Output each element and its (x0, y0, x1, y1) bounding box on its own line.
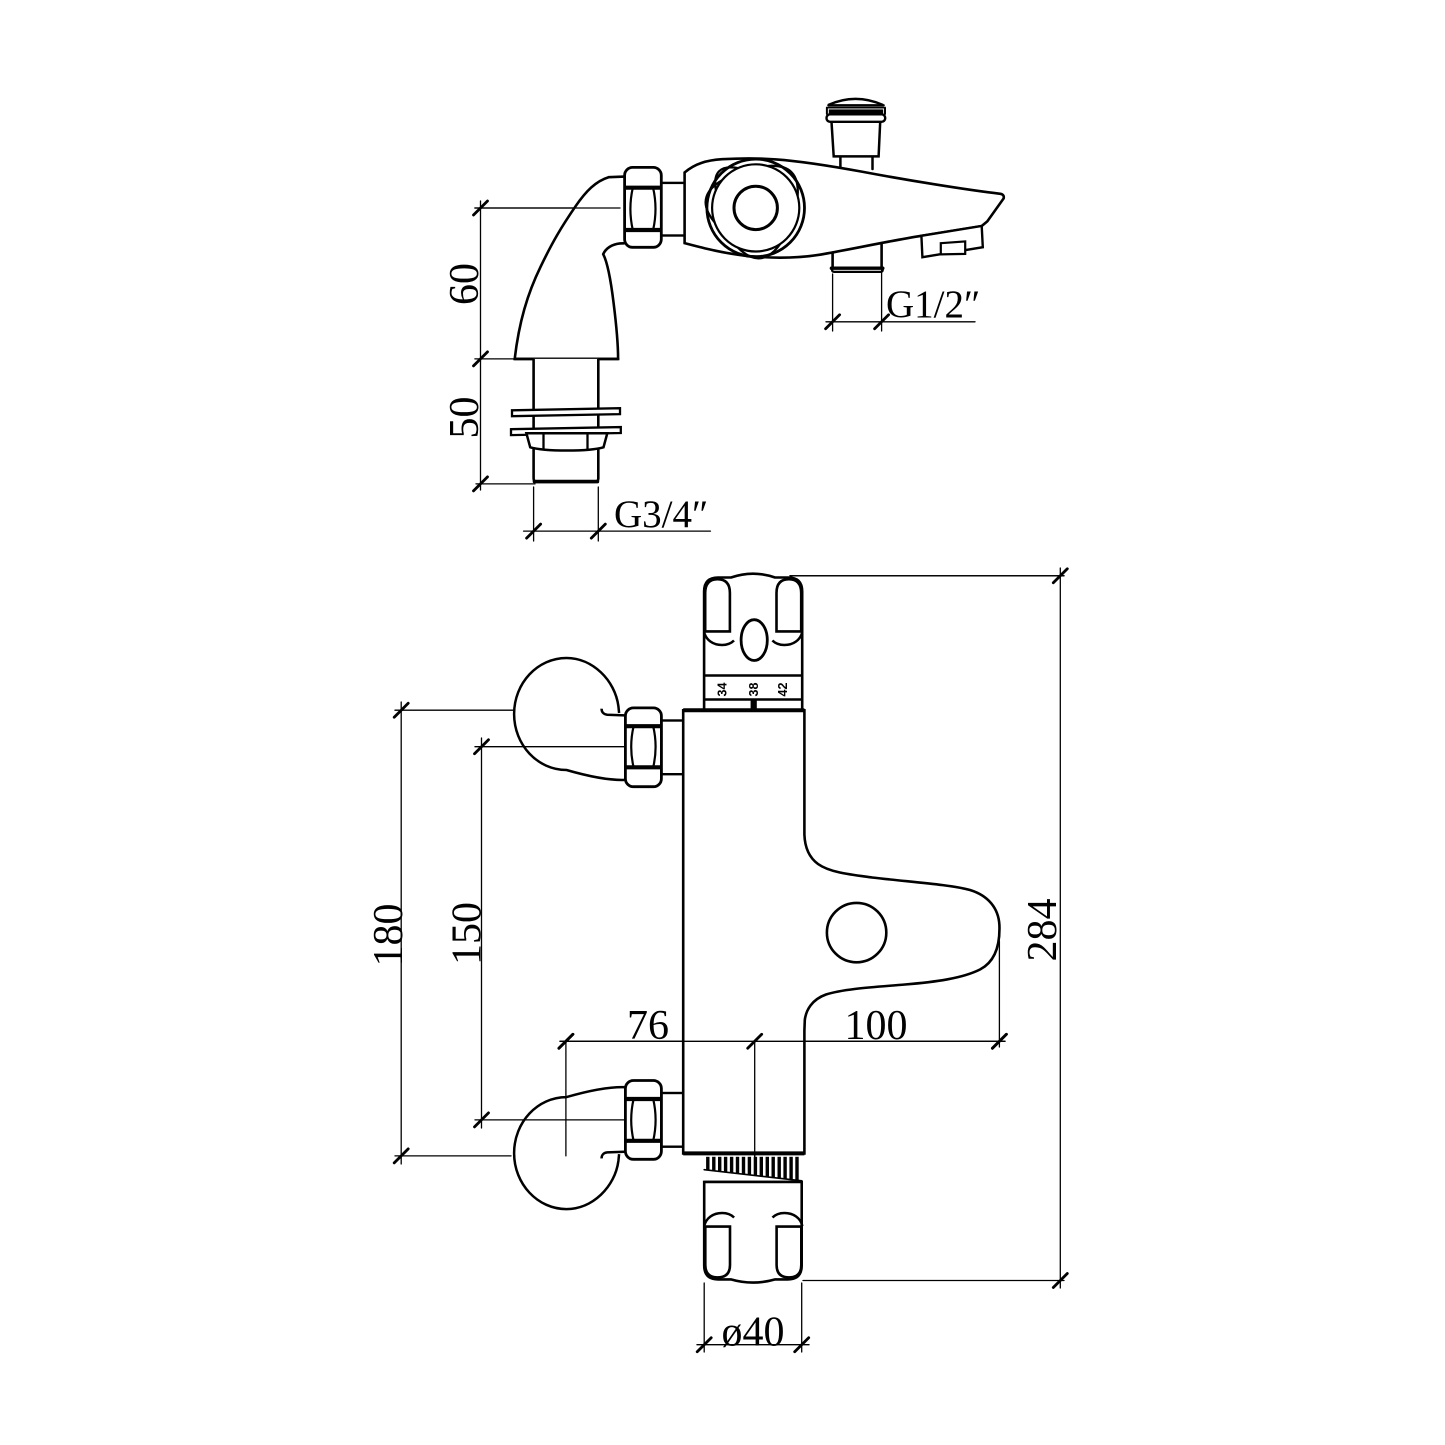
svg-text:G3/4″: G3/4″ (614, 493, 708, 536)
svg-text:42: 42 (776, 683, 790, 697)
svg-text:180: 180 (366, 904, 412, 967)
svg-text:G1/2″: G1/2″ (886, 283, 980, 326)
svg-text:60: 60 (442, 263, 488, 305)
svg-text:ø40: ø40 (722, 1310, 785, 1356)
svg-text:34: 34 (715, 683, 729, 697)
svg-text:76: 76 (627, 1003, 669, 1049)
svg-text:50: 50 (442, 397, 488, 439)
svg-text:284: 284 (1020, 899, 1066, 962)
svg-text:38: 38 (747, 683, 761, 697)
svg-text:150: 150 (445, 902, 491, 965)
svg-text:100: 100 (845, 1003, 908, 1049)
